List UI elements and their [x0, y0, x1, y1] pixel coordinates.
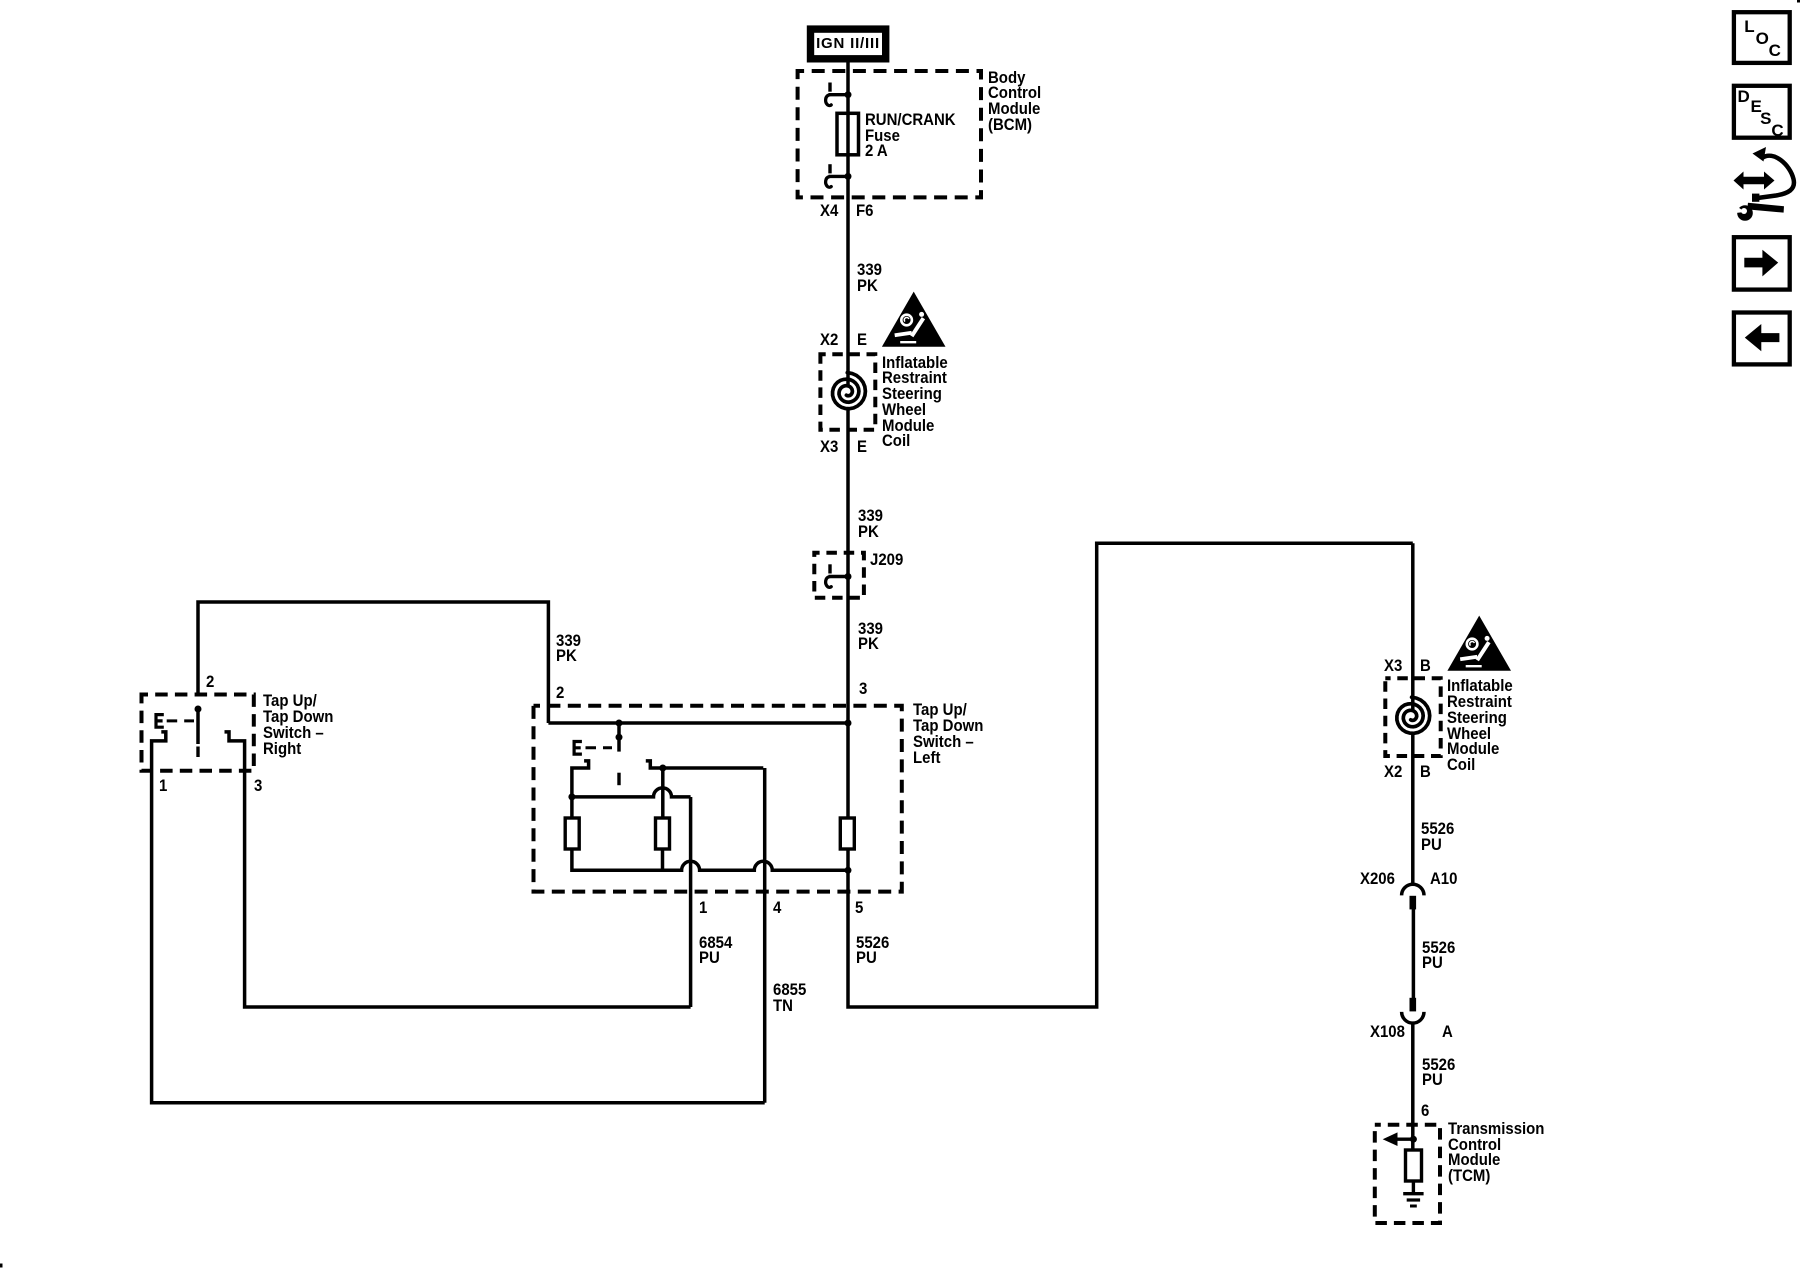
connector label X206: [1360, 871, 1395, 887]
label J209: [870, 552, 903, 568]
wire node inside switch left pin2 to common: [548, 721, 848, 725]
Tap Up/Tap Down Switch Right dashed box: [142, 695, 254, 771]
switch left fixed contact left: [572, 761, 589, 818]
switch left movable contact arm: [616, 723, 623, 785]
label Tap Up/Tap Down Switch Right: [263, 693, 333, 756]
splice J209 terminal hook: [826, 564, 852, 587]
wire label 5526 PU switch: [856, 935, 889, 967]
label DESC letter C: [1771, 123, 1783, 139]
power feed box IGN II/III: [807, 25, 890, 62]
pin label 5 switch left: [855, 900, 863, 916]
switch left bottom bus junction: [845, 867, 852, 874]
pin label X3 coil lower: [1384, 658, 1402, 674]
wire from switch left pin 4 up into switch: [763, 768, 767, 1103]
wire label 339 PK lower: [858, 621, 883, 653]
label LOC letter O: [1756, 31, 1769, 47]
wire label 5526 PU above X206: [1421, 821, 1454, 853]
resistor R1 in switch left: [565, 818, 579, 849]
connector label A10: [1430, 871, 1457, 887]
Body Control Module (BCM) dashed box: [798, 71, 981, 197]
TCM pull-up resistor: [1406, 1150, 1422, 1181]
fuse RUN/CRANK Fuse 2 A: [837, 113, 859, 155]
pin label 4 switch left: [773, 900, 781, 916]
wire 339 PK from IGN II/III feed through BCM fuse down to coil X2-E: [846, 62, 850, 386]
page corner mark top right: [1797, 0, 1800, 3]
tools icon wrench: [1731, 202, 1785, 221]
switch right junction pin 2: [195, 706, 202, 713]
switch left detent dashed link: [586, 746, 613, 749]
LOC navigation box: [1734, 12, 1790, 63]
pin label B coil lower out: [1420, 764, 1431, 780]
switch left junction common node: [845, 720, 852, 727]
label LOC letter L: [1744, 19, 1754, 35]
Tap Up/Tap Down Switch Left dashed box: [534, 706, 902, 892]
TCM resistor to ground wire: [1412, 1181, 1415, 1194]
label DESC letter S: [1760, 111, 1771, 127]
switch left junction pin2 line: [616, 720, 623, 727]
tools icon double arrow: [1734, 172, 1775, 190]
switch left bottom bus with hops over pin1 and pin4 wires: [572, 849, 848, 870]
wire 5526 PU from X108 to TCM pin 6: [1411, 1023, 1415, 1150]
pin label 1 switch right: [159, 778, 167, 794]
warning triangle SRS symbol upper: [882, 292, 946, 347]
wire 6855 TN from switch right pin 1 down and right to switch left pin 4: [152, 770, 765, 1103]
wire label 5526 PU above TCM: [1422, 1057, 1455, 1089]
wire 339 PK from coil X3-E through J209 down to switch pin 3: [846, 410, 850, 724]
pin label E coil upper out: [857, 439, 867, 455]
connector label A: [1442, 1024, 1453, 1040]
wire 6854 PU from switch right pin 3 down and right to switch left pin 1: [245, 770, 691, 1007]
TCM signal arrow: [1383, 1132, 1414, 1146]
tools icon routing curve: [1752, 147, 1794, 202]
label DESC letter D: [1738, 89, 1750, 105]
switch left tap junction: [659, 765, 666, 772]
Inflatable Restraint Steering Wheel Module Coil lower dashed box: [1385, 678, 1440, 756]
wire label 5526 PU between connectors: [1422, 940, 1455, 972]
BCM internal terminal hook upper: [826, 83, 852, 106]
pin label E coil upper in: [857, 332, 867, 348]
switch left node to resistor row with hop over tap wire: [568, 788, 690, 801]
wire 5526 PU from corner down to right coil X3-B: [1411, 543, 1415, 710]
wire label 339 PK switch branch: [556, 633, 581, 665]
pin label X2 coil lower: [1384, 764, 1402, 780]
Transmission Control Module (TCM) dashed box: [1375, 1125, 1440, 1223]
pin label X2 coil upper: [820, 332, 838, 348]
pin label 2 switch left: [556, 685, 564, 701]
pin label 3 switch left: [859, 681, 867, 697]
pin label F6: [856, 203, 873, 219]
switch left tap wire to resistor: [661, 768, 665, 818]
wire from switch right pin 2 up and across to switch left pin 2: [198, 602, 548, 723]
wire 5526 PU from right coil X2-B down to X206: [1411, 734, 1415, 885]
inline connector X108 pin A: [1402, 998, 1424, 1023]
connector label X108: [1370, 1024, 1405, 1040]
pin label 3 switch right: [254, 778, 262, 794]
switch right detent symbol E: [156, 715, 164, 728]
wire label 339 PK upper: [857, 262, 882, 294]
warning triangle SRS symbol lower: [1447, 616, 1511, 671]
page corner mark bottom left: [0, 1264, 3, 1268]
TCM junction pin 6 node: [1410, 1136, 1417, 1143]
pin label 6 TCM: [1421, 1103, 1429, 1119]
wire label 6854 PU: [699, 935, 732, 967]
coil spiral winding upper: [833, 373, 866, 409]
label LOC letter C: [1769, 43, 1781, 59]
label IGN II/III: [816, 36, 880, 51]
wire from resistor to bottom node inside switch left: [846, 849, 850, 870]
label Inflatable Restraint Steering Wheel Module Coil lower: [1447, 678, 1513, 773]
forward arrow navigation box: [1734, 237, 1790, 289]
label Inflatable Restraint Steering Wheel Module Coil upper: [882, 355, 948, 450]
inline connector X206 pin A10: [1402, 884, 1424, 909]
coil spiral winding lower: [1397, 697, 1430, 733]
label Transmission Control Module (TCM): [1448, 1121, 1544, 1184]
label Body Control Module (BCM): [988, 70, 1041, 133]
splice J209 dashed box: [814, 553, 864, 598]
ground symbol in TCM: [1403, 1194, 1423, 1206]
wire from switch left pin 1 up into switch: [689, 797, 693, 1007]
label Tap Up/Tap Down Switch Left: [913, 702, 983, 765]
switch left detent symbol E: [574, 742, 582, 755]
switch left fixed contact right: [646, 761, 764, 768]
Inflatable Restraint Steering Wheel Module Coil upper dashed box: [820, 354, 875, 430]
switch right movable contact arm: [196, 709, 200, 757]
wire label 339 PK middle: [858, 508, 883, 540]
switch right detent dashed link: [167, 719, 194, 722]
pin label 2 switch right: [206, 674, 214, 690]
resistor R2 in switch left: [656, 818, 670, 849]
wire node inside Tap Up/Tap Down Switch Left from pin 3 to resistor: [846, 723, 850, 818]
label DESC letter E: [1751, 99, 1762, 115]
wire 5526 PU from switch left pin 5 down, right, up and right to coil X3-B: [848, 543, 1413, 1007]
DESC navigation box: [1734, 86, 1790, 138]
pin label X3 coil upper: [820, 439, 838, 455]
pin label B coil lower in: [1420, 658, 1431, 674]
switch right fixed contact right: [225, 732, 245, 770]
switch right fixed contact left: [152, 732, 166, 770]
wire label 6855 TN: [773, 982, 806, 1014]
switch left resistor tap wire: [661, 849, 665, 870]
pin label X4: [820, 203, 838, 219]
resistor R3 in switch left: [840, 818, 854, 849]
wire 5526 PU between X206 and X108: [1412, 909, 1416, 999]
label RUN/CRANK Fuse 2 A: [865, 112, 956, 159]
BCM internal terminal hook lower: [826, 164, 852, 187]
pin label 1 switch left: [699, 900, 707, 916]
back arrow navigation box: [1734, 313, 1790, 365]
